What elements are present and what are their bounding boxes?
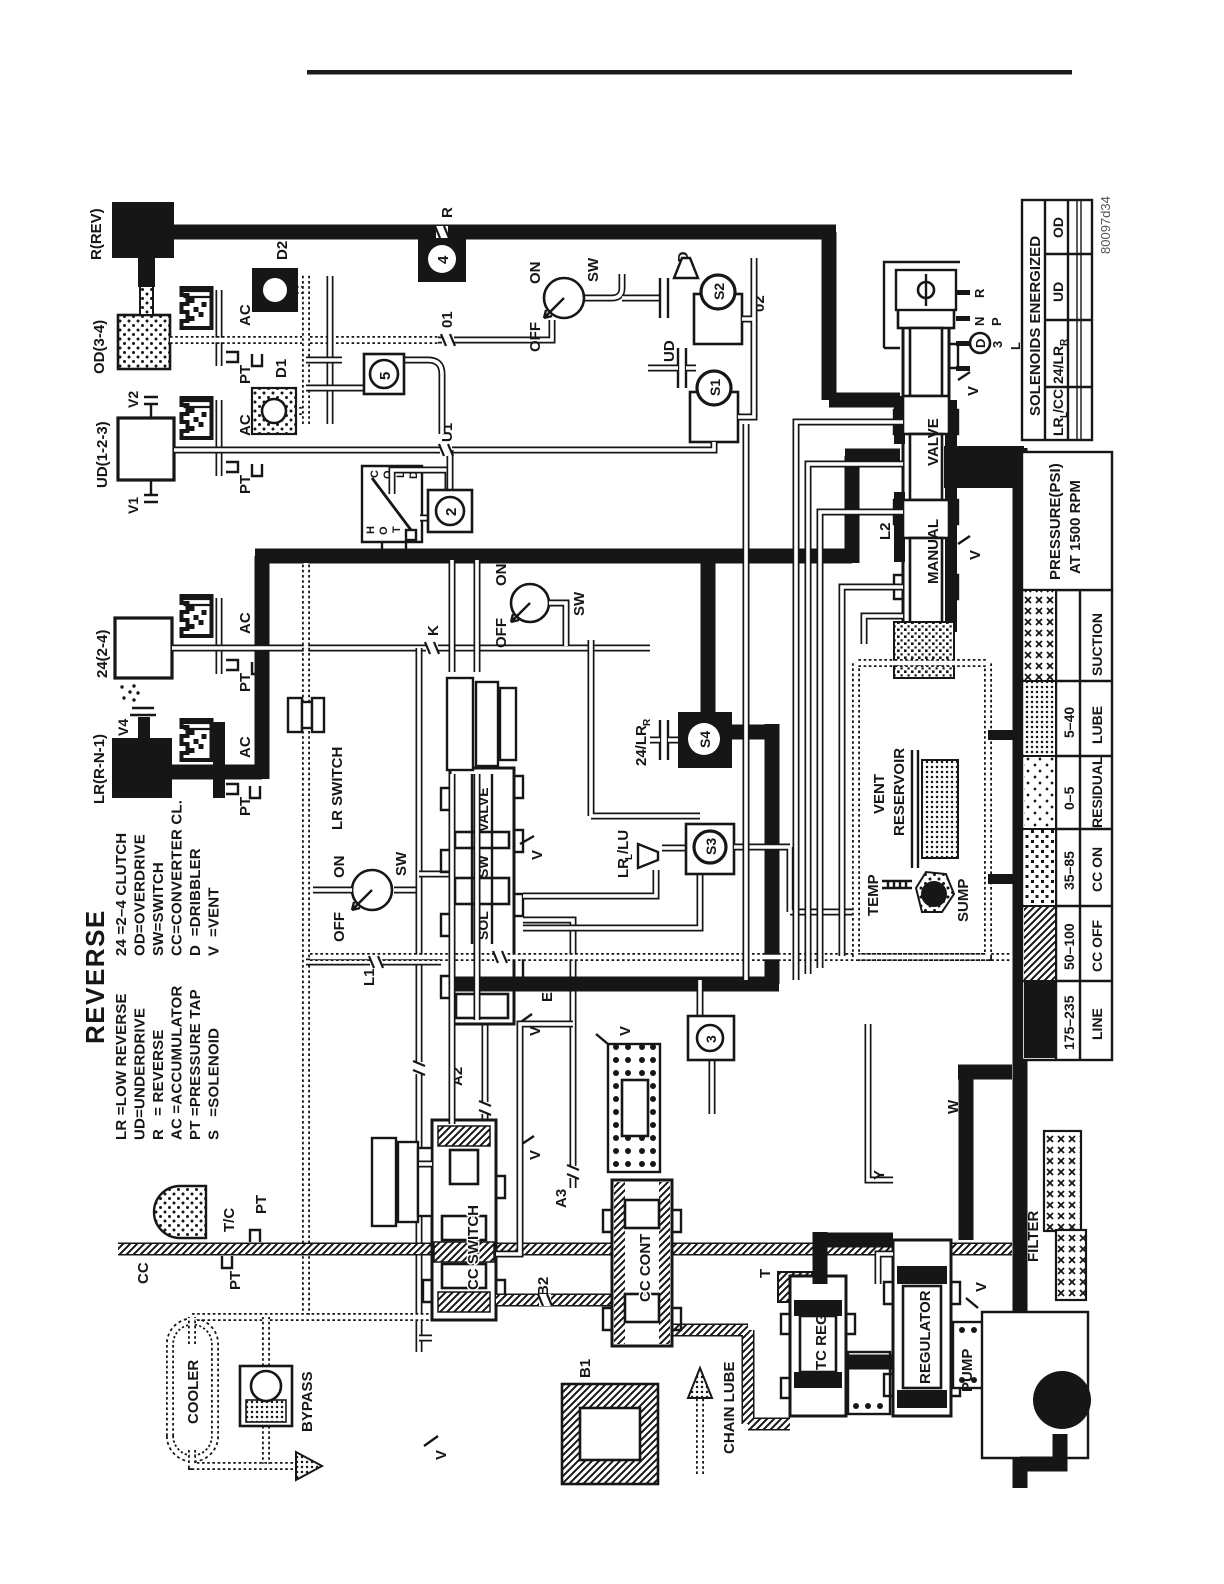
svg-text:0–5: 0–5 — [1061, 786, 1077, 810]
svg-text:Z: Z — [863, 1239, 880, 1248]
svg-text:REGULATOR: REGULATOR — [917, 1290, 934, 1384]
svg-text:/LU: /LU — [615, 830, 632, 854]
svg-text:RESERVOIR: RESERVOIR — [891, 748, 908, 836]
TC REG hatch slab — [778, 1272, 812, 1302]
svg-text:175–235: 175–235 — [1061, 995, 1077, 1050]
svg-text:CC OFF: CC OFF — [1089, 919, 1105, 972]
wire: LR vent stipple vertical — [310, 953, 1012, 961]
junction circle 5 — [306, 360, 442, 434]
wire: LR bus to main (thick) — [255, 556, 270, 779]
svg-text:AC: AC — [237, 304, 254, 326]
svg-text:SW: SW — [571, 591, 588, 616]
svg-text:VALVE: VALVE — [925, 418, 942, 466]
spool stack (plug retainer) — [447, 678, 516, 770]
svg-text:3: 3 — [703, 1035, 719, 1043]
svg-text:PT: PT — [227, 1271, 244, 1290]
svg-text:UD: UD — [1050, 282, 1066, 302]
svg-text:D: D — [973, 339, 988, 348]
svg-text:24 =2–4 CLUTCH: 24 =2–4 CLUTCH — [113, 833, 130, 956]
svg-text:50–100: 50–100 — [1061, 923, 1077, 970]
wire: hatch link CC switch to TC REG T — [672, 1330, 790, 1424]
wire: UD clutch feed U1 line — [174, 447, 692, 454]
svg-text:L: L — [1008, 342, 1023, 350]
svg-text:S1: S1 — [707, 379, 723, 396]
manual valve end shell — [884, 262, 960, 348]
svg-text:TC REG: TC REG — [813, 1313, 830, 1370]
svg-text:D =DRIBBLER: D =DRIBBLER — [187, 848, 204, 956]
svg-text:AC =ACCUMULATOR: AC =ACCUMULATOR — [169, 985, 186, 1140]
svg-text:O: O — [378, 526, 390, 535]
page header rule — [307, 70, 1072, 75]
svg-text:S4: S4 — [697, 731, 713, 748]
wire: A-line risers near CC switch — [419, 1024, 573, 1338]
svg-text:S3: S3 — [703, 838, 719, 855]
wire: pump suction from sump via filter — [1020, 1434, 1060, 1464]
T/C torque converter — [154, 1186, 206, 1238]
svg-text:V: V — [967, 550, 984, 560]
svg-text:S =SOLENOID: S =SOLENOID — [206, 1028, 223, 1140]
svg-text:/CC: /CC — [1050, 389, 1066, 413]
PT tap stub UD — [252, 464, 262, 476]
svg-text:COOLER: COOLER — [185, 1360, 202, 1424]
svg-text:R: R — [642, 718, 653, 726]
wire: regulator Z — [878, 1254, 893, 1284]
wire: R main (thick) — [174, 225, 836, 240]
svg-text:E: E — [539, 992, 556, 1002]
LR SWITCH stipple channel — [302, 563, 310, 1316]
svg-text:D2: D2 — [274, 241, 291, 260]
spool lands — [456, 994, 508, 1018]
svg-text:D1: D1 — [273, 359, 290, 378]
svg-text:B1: B1 — [577, 1359, 594, 1378]
svg-text:V: V — [965, 386, 982, 396]
svg-text:P: P — [989, 317, 1004, 326]
wire: B2 hatch link — [496, 1294, 612, 1307]
accumulator AC (LR) — [213, 722, 225, 798]
svg-text:OD: OD — [1050, 217, 1066, 238]
svg-text:R: R — [1059, 338, 1070, 346]
accumulator AC (24) — [216, 598, 223, 674]
svg-text:LR =LOW REVERSE: LR =LOW REVERSE — [113, 993, 130, 1140]
svg-text:UD=UNDERDRIVE: UD=UNDERDRIVE — [132, 1008, 149, 1140]
svg-text:R = REVERSE: R = REVERSE — [150, 1029, 167, 1140]
svg-text:L1: L1 — [361, 968, 378, 986]
svg-text:SW: SW — [393, 851, 410, 876]
svg-text:H: H — [365, 526, 377, 534]
svg-text:V4: V4 — [115, 719, 131, 736]
svg-text:V =VENT: V =VENT — [206, 887, 223, 956]
svg-text:UD(1-2-3): UD(1-2-3) — [94, 421, 111, 488]
PRESSURE(PSI) AT 1500 RPM table — [1022, 452, 1112, 1060]
svg-text:BYPASS: BYPASS — [299, 1371, 316, 1432]
svg-text:UD: UD — [661, 340, 678, 362]
TC REG valve — [781, 1276, 855, 1416]
wire: S3 output — [734, 847, 856, 912]
wire: LR clutch feed (thick) — [172, 765, 262, 780]
svg-text:5: 5 — [377, 372, 394, 380]
svg-text:PT: PT — [237, 797, 254, 816]
svg-text:R(REV): R(REV) — [88, 208, 105, 260]
BYPASS valve — [262, 1317, 270, 1466]
svg-text:L2: L2 — [877, 522, 894, 540]
svg-text:CC SWITCH: CC SWITCH — [465, 1205, 482, 1290]
legend column 2 — [113, 800, 223, 956]
MANUAL VALVE — [894, 310, 958, 634]
wire: UD to S1 — [690, 442, 714, 450]
dribbler D1 — [252, 388, 296, 434]
svg-text:3: 3 — [990, 341, 1005, 348]
svg-text:ON: ON — [527, 262, 544, 285]
CC switch plug stack — [372, 1138, 432, 1226]
svg-text:AT 1500 RPM: AT 1500 RPM — [1067, 480, 1084, 574]
svg-text:CC=CONVERTER CL.: CC=CONVERTER CL. — [169, 800, 186, 956]
extra long runs for density — [452, 560, 477, 1060]
svg-text:V: V — [529, 850, 546, 860]
wire: valve to S3 feeds — [523, 870, 700, 928]
svg-text:V: V — [973, 1282, 990, 1292]
svg-text:CC CONT: CC CONT — [637, 1234, 654, 1302]
CC main hatched line — [118, 1243, 1012, 1256]
svg-text:ON: ON — [331, 856, 348, 879]
CC CONT valve — [603, 1180, 681, 1346]
svg-text:FILTER: FILTER — [1025, 1210, 1042, 1262]
wire: A1 line — [419, 874, 485, 1128]
svg-text:V: V — [617, 1026, 634, 1036]
junction circle 2 — [392, 470, 448, 518]
svg-text:T: T — [391, 526, 403, 533]
svg-text:OD=OVERDRIVE: OD=OVERDRIVE — [132, 834, 149, 956]
svg-text:CHAIN LUBE: CHAIN LUBE — [721, 1362, 738, 1455]
svg-text:A3: A3 — [553, 1189, 570, 1208]
wire: thin channel under dribblers — [327, 276, 334, 424]
svg-text:V: V — [527, 1150, 544, 1160]
svg-text:SOLENOIDS ENERGIZED: SOLENOIDS ENERGIZED — [1027, 236, 1044, 416]
svg-text:N: N — [972, 317, 987, 326]
svg-text:VENT: VENT — [871, 774, 888, 814]
svg-text:LUBE: LUBE — [1089, 706, 1105, 744]
svg-text:R: R — [972, 288, 987, 298]
svg-text:4: 4 — [435, 255, 452, 264]
wire: OD dribbler stipple channel — [302, 274, 310, 424]
svg-text:OFF: OFF — [331, 912, 348, 942]
COOLER — [170, 1322, 215, 1459]
svg-text:V2: V2 — [125, 391, 141, 408]
SUMP — [916, 872, 954, 912]
svg-text:PRESSURE(PSI): PRESSURE(PSI) — [1047, 463, 1064, 580]
reservoir tank — [912, 750, 918, 868]
svg-text:OFF: OFF — [527, 322, 544, 352]
CC SWITCH valve — [423, 1120, 505, 1320]
svg-text:CC ON: CC ON — [1089, 847, 1105, 892]
svg-text:LR SWITCH: LR SWITCH — [329, 747, 346, 830]
svg-text:V1: V1 — [125, 497, 141, 514]
svg-text:PT: PT — [253, 1195, 270, 1214]
svg-text:V: V — [433, 1450, 450, 1460]
svg-text:PUMP: PUMP — [959, 1349, 976, 1392]
svg-text:TEMP: TEMP — [865, 874, 882, 916]
svg-text:MANUAL: MANUAL — [925, 519, 942, 584]
wire: 24 clutch feed K line — [172, 645, 650, 652]
svg-text:T: T — [757, 1269, 774, 1278]
svg-text:C: C — [369, 470, 381, 478]
svg-text:K: K — [425, 625, 442, 636]
wire: OD dotted feed — [170, 336, 302, 344]
REGULATOR valve — [884, 1240, 960, 1416]
B1 spool — [562, 1384, 658, 1484]
svg-text:ON: ON — [493, 564, 510, 587]
main line bus (thick) — [1013, 448, 1028, 1488]
reservoir feet — [988, 874, 1014, 884]
wire: cooler feed dotted vertical — [192, 1313, 432, 1321]
bore black walls — [945, 400, 957, 600]
VENT RESERVOIR — [856, 663, 988, 957]
arrow both ways — [432, 494, 454, 502]
wire: regulator Y — [868, 1024, 893, 1180]
svg-text:Y: Y — [871, 1170, 888, 1180]
svg-text:OD(3-4): OD(3-4) — [91, 320, 108, 374]
svg-text:RESIDUAL: RESIDUAL — [1089, 756, 1105, 828]
wire: regulator W thick — [958, 1072, 1012, 1240]
svg-text:SUCTION: SUCTION — [1089, 613, 1105, 676]
svg-text:B2: B2 — [535, 1277, 552, 1296]
wire: E line thick — [455, 977, 779, 992]
accumulator AC (UD) — [216, 400, 223, 476]
wire: LR main to manual valve (thick) — [845, 456, 900, 563]
SOL SW VALVE body — [441, 768, 523, 1024]
thermal valve HOT/COLD — [362, 466, 422, 554]
SOLENOIDS ENERGIZED table — [1022, 200, 1092, 440]
svg-text:AC: AC — [237, 736, 254, 758]
wire: LR main vertical (thick) — [255, 549, 852, 564]
legend column 1 — [113, 985, 223, 1140]
svg-text:24/LR: 24/LR — [1050, 346, 1066, 384]
svg-text:80097d34: 80097d34 — [1098, 196, 1113, 254]
distributor box 4 — [437, 232, 452, 256]
svg-text:PT: PT — [237, 673, 254, 692]
svg-text:LR: LR — [1050, 417, 1066, 436]
svg-text:T/C: T/C — [221, 1208, 238, 1232]
wire: OD dotted continues — [310, 336, 438, 344]
dribbler stubs — [294, 290, 304, 411]
detent marks — [956, 290, 970, 371]
accumulator AC (OD) — [216, 290, 223, 366]
svg-text:SW=SWITCH: SW=SWITCH — [150, 862, 167, 956]
svg-text:LR(R-N-1): LR(R-N-1) — [91, 734, 108, 804]
wire: S1/S2 outputs — [738, 258, 754, 417]
junction circle 3 — [700, 980, 712, 1114]
svg-text:24/LR: 24/LR — [633, 725, 650, 766]
wire: A2 long line — [416, 648, 423, 1352]
svg-text:PT: PT — [237, 365, 254, 384]
svg-text:AC: AC — [237, 612, 254, 634]
svg-text:SW: SW — [585, 257, 602, 282]
wire: TC REG to REGULATOR thick — [846, 1355, 900, 1370]
dribbler D2 — [252, 268, 298, 312]
svg-text:CC: CC — [135, 1262, 152, 1284]
manual valve suction stipple block — [894, 622, 954, 678]
CC CONT spring spool (dotted) — [608, 1044, 660, 1172]
PT tap stub LR — [250, 786, 260, 798]
svg-text:LINE: LINE — [1089, 1008, 1105, 1040]
svg-text:R: R — [439, 207, 456, 218]
svg-text:REVERSE: REVERSE — [80, 909, 110, 1044]
PT tap stub OD — [252, 354, 262, 366]
svg-text:01: 01 — [439, 311, 456, 328]
svg-text:35–85: 35–85 — [1061, 851, 1077, 890]
wires from manual valve to left — [796, 422, 903, 980]
swatches — [1024, 982, 1055, 1058]
svg-text:SUMP: SUMP — [955, 879, 972, 922]
LR switch plunger — [288, 698, 324, 732]
svg-text:PT =PRESSURE TAP: PT =PRESSURE TAP — [187, 989, 204, 1140]
svg-text:24(2-4): 24(2-4) — [94, 630, 111, 678]
PT tap stub 24 — [252, 662, 262, 674]
wire: 01 line to switch — [438, 320, 552, 340]
PT taps on CC line — [250, 1230, 260, 1242]
wire: manual valve long run — [591, 640, 700, 816]
line break marks at net labels — [425, 642, 439, 654]
wire: cooler return + arrow — [192, 1450, 300, 1466]
svg-text:5–40: 5–40 — [1061, 707, 1077, 738]
shifter positions — [970, 333, 990, 353]
wire: L1 line — [306, 959, 441, 966]
svg-text:S2: S2 — [711, 283, 727, 300]
svg-text:2: 2 — [443, 508, 460, 516]
manual valve spool — [898, 306, 954, 328]
svg-text:PT: PT — [237, 475, 254, 494]
wire: S4 thick to main — [701, 556, 716, 718]
svg-text:W: W — [945, 1099, 962, 1114]
wire: A3 line — [523, 920, 573, 1188]
svg-text:OFF: OFF — [493, 618, 510, 648]
